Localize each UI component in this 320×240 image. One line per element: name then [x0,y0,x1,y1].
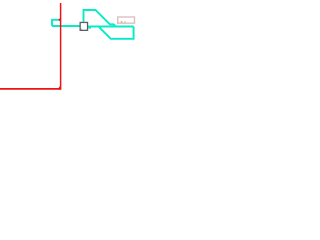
wire cyan return nub at station right edge [88,27,91,29]
wire red vertical line [60,3,62,89]
arrow marker at red corner junction [57,85,61,90]
transit map schematic 160x160 [0,0,160,160]
wire cyan terminal stub + elbow at left [52,20,59,26]
station square [80,22,87,30]
tiny mark inside station square bottom-left [81,29,82,30]
wire cyan main horizontal line right segment [88,26,134,28]
wire cyan balloon loop: right vertical, bottom horizontal, diagonal back to main [99,27,133,39]
wire red horizontal line [0,88,61,90]
label box top right [118,17,135,23]
arrow marker on red line at cyan stub junction [58,18,60,22]
label text bumps [117,21,119,24]
wire cyan top branch from station: up, right, 45-degree diagonal merging into main [84,10,116,27]
wire cyan main horizontal line left segment [52,25,80,27]
